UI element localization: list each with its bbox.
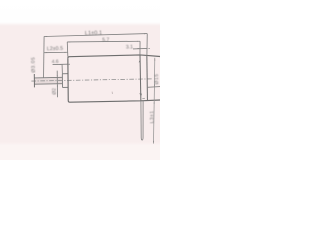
- ext line left (L1/L2): [43, 36, 46, 77]
- L1 arrows: [44, 35, 47, 38]
- svg-text:Ø3.05: Ø3.05: [30, 57, 36, 73]
- L2 arrows: [44, 51, 47, 54]
- dia15 arrows: [153, 58, 156, 61]
- arrowheads: [34, 33, 155, 143]
- dim line 5.7: [67, 40, 140, 43]
- svg-text:4.6: 4.6: [52, 59, 59, 65]
- ext 5.7 right: [139, 41, 141, 55]
- speck: [111, 92, 113, 94]
- motor outline drawing (photographed datasheet): [0, 0, 160, 160]
- terminal tab: [141, 101, 143, 140]
- 4.6 arrows: [60, 63, 63, 66]
- endcap right face: [146, 56, 149, 100]
- svg-text:Ø15: Ø15: [154, 73, 160, 84]
- body outline: [68, 55, 160, 58]
- boss left face: [61, 74, 63, 88]
- labels: [30, 30, 160, 123]
- dim line dia3.05: [33, 74, 35, 87]
- 5.7 arrows: [67, 41, 70, 44]
- centerline: [31, 79, 152, 81]
- tick near seam: [139, 60, 141, 62]
- svg-text:L1±0.1: L1±0.1: [85, 30, 103, 36]
- tick near terminal top: [142, 97, 145, 100]
- shaft bottom edge: [34, 83, 62, 86]
- ext 5.7 left: [66, 42, 69, 57]
- dim line 3.1: [133, 47, 147, 49]
- dia2 arrows: [56, 75, 59, 77]
- svg-text:Ø2: Ø2: [52, 88, 58, 95]
- ext stub dia15 bottom: [147, 86, 160, 89]
- svg-text:5.7: 5.7: [102, 37, 109, 43]
- dim line dia15/L3: [154, 58, 155, 144]
- ext line right (L1/3.1): [146, 34, 148, 56]
- boss bottom edge: [63, 86, 68, 88]
- 3.1 arrows: [138, 47, 141, 50]
- page background: [0, 0, 160, 160]
- shaft fill: [34, 77, 62, 84]
- boss top edge: [62, 73, 68, 75]
- L3 arrows: [153, 101, 156, 104]
- svg-text:3.1: 3.1: [126, 44, 133, 50]
- shaft top edge: [34, 76, 62, 79]
- dim line L1: [44, 34, 147, 37]
- dim line dia2: [56, 71, 58, 98]
- polarity mark: [139, 93, 142, 97]
- dim line 4.6: [53, 63, 68, 65]
- svg-text:L2±0.5: L2±0.5: [47, 46, 63, 52]
- dia3.05 arrows: [33, 75, 36, 78]
- ext 4.6 / boss face: [61, 65, 63, 74]
- svg-text:L3±1: L3±1: [149, 110, 155, 123]
- dim line L2: [44, 51, 68, 53]
- endcap seam: [139, 55, 142, 101]
